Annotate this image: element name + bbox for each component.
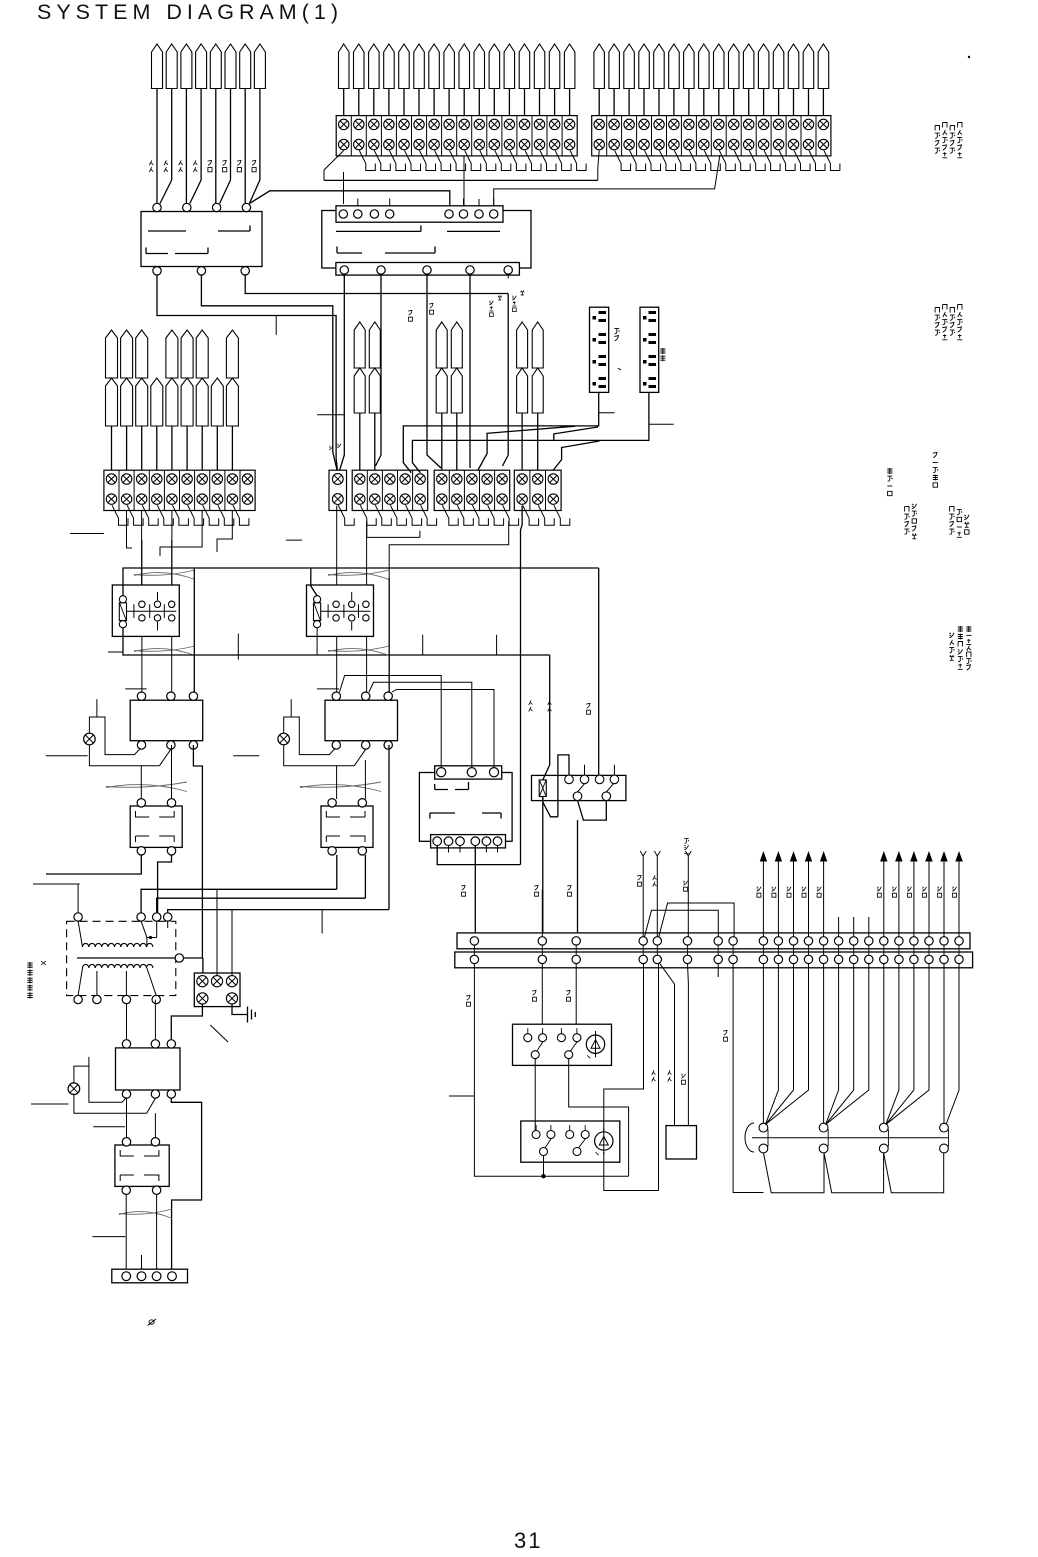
labels konekuta supuringu bbox=[904, 507, 909, 535]
connector CN4 with pilot lamp PL2 bbox=[325, 700, 398, 741]
SB1 bottom wires bbox=[46, 855, 141, 874]
relay K1 loop wire bbox=[193, 568, 195, 692]
tick above CN3 bbox=[125, 688, 147, 690]
labels konekuta/kontakuto group 2 bbox=[935, 308, 940, 336]
CN2 top pins bbox=[339, 210, 347, 218]
wire crossover above K2 bbox=[328, 570, 389, 575]
relay square SQ1 bbox=[666, 1126, 697, 1159]
midori ki labels bbox=[489, 301, 493, 317]
wire CN2-5 down to TB5-5 bbox=[503, 294, 509, 467]
bus bar BB2 bbox=[455, 952, 973, 968]
CN2 internal key dashes bbox=[336, 226, 500, 232]
T1 pin4 wire to CN4-3 bbox=[168, 760, 389, 913]
terminal strip TB5 (5 x 2) bbox=[434, 470, 510, 510]
module M3 fan wires bbox=[886, 964, 899, 1125]
connector CN5 outer housing bbox=[419, 773, 512, 842]
T1 primary winding bbox=[83, 943, 153, 947]
left stub wire bbox=[70, 533, 104, 535]
wire T1 core to terminal bbox=[175, 954, 183, 962]
net return bus lower (y655) bbox=[123, 628, 550, 655]
wires bus to switch unit SW1 bbox=[474, 964, 628, 1177]
wire CN2-1 down to TB3 bbox=[339, 274, 345, 473]
module chain M1-M2 bbox=[764, 1153, 825, 1193]
terminal strip TB1 (16 x 2 screw terminals) bbox=[336, 116, 577, 156]
CN5 key dashes bbox=[435, 782, 469, 790]
staircase wire CN4-2 to CN5-2 bbox=[369, 682, 472, 767]
power stub bbox=[649, 423, 674, 425]
shiro labels group 1 bbox=[757, 887, 761, 897]
wires TB-L2 down to relay K1 bbox=[141, 511, 143, 586]
stub left of PL1 bbox=[46, 755, 88, 757]
module M4 contacts bbox=[940, 1123, 949, 1132]
connector CN1 housing bbox=[141, 212, 262, 267]
connector J7 two-tier pins over TB6 bbox=[517, 322, 544, 470]
connector J4 lower tier pins bbox=[106, 378, 239, 426]
T1 secondary winding bbox=[83, 964, 153, 968]
T1 primary leads bbox=[78, 921, 82, 947]
module M1 contacts bbox=[759, 1123, 768, 1132]
wire crossover above K1 bbox=[134, 570, 195, 575]
stub left of PL3 bbox=[31, 1103, 69, 1105]
kuro labels above bus bbox=[461, 885, 465, 896]
FB1 fuse output to bus bbox=[542, 797, 544, 937]
kuro labels mid bbox=[408, 310, 412, 321]
CN1 bottom pins bbox=[153, 267, 161, 275]
connector J1 pin contacts (8 crimp pins) bbox=[152, 44, 266, 89]
module M1 feed vertical bbox=[762, 964, 764, 1124]
module M4 fan wires bbox=[946, 964, 959, 1125]
terminal box SB1 bbox=[130, 806, 182, 847]
module chain M3-M4 bbox=[884, 1153, 944, 1193]
output terminal strip TB8 bbox=[112, 1269, 188, 1283]
T1 core line bbox=[77, 957, 179, 959]
SB3 feed wires bbox=[126, 1098, 128, 1137]
kuro labels below bus bbox=[466, 995, 470, 1006]
stub left of TB4 drops bbox=[286, 539, 302, 541]
relay K2 loop wire bbox=[388, 578, 390, 644]
TB3 hook bbox=[338, 505, 354, 525]
SB3 output wires bbox=[125, 1194, 127, 1269]
wire TB5-5 to relay K2 loop bbox=[389, 522, 509, 579]
connector J3 pin contacts (16 crimp pins) bbox=[594, 44, 829, 89]
module common bus line bbox=[752, 1137, 948, 1139]
terminal strip TB6 (3 x 2) bbox=[514, 470, 561, 510]
connector J5 two-tier pins over TB4 bbox=[354, 322, 380, 470]
SB2 wires up bbox=[336, 766, 338, 799]
bus jumper J-a bbox=[645, 910, 719, 936]
dai dai shiro labels bbox=[652, 1070, 656, 1081]
SW2 output wires bbox=[543, 1156, 545, 1177]
wire power to TB4 (net C) bbox=[412, 393, 649, 473]
hub unit bbox=[590, 307, 609, 392]
terminal strip TB2 (16 x 2 screw terminals) bbox=[592, 116, 831, 156]
TB7 to CN6 wire bbox=[171, 1004, 202, 1040]
wire crossover below K1 bbox=[134, 646, 195, 651]
isolation transformer T1 (dashed enclosure) bbox=[67, 921, 176, 995]
switch unit SW1 with buzzer BZ1 bbox=[513, 1024, 612, 1065]
svg-text:31: 31 bbox=[514, 1528, 542, 1553]
open arrows (buzzer lines) bbox=[642, 855, 644, 937]
tick wires on return bus bbox=[237, 634, 239, 660]
CN1 internal key dashes bbox=[148, 226, 250, 232]
wire stub under feed bbox=[275, 316, 277, 335]
tap wire net A to TB5-3 bbox=[478, 426, 575, 470]
wire crossover below SB3 bbox=[119, 1209, 172, 1214]
CN5 bottom-1 wire bbox=[437, 846, 520, 865]
CN1 top pins bbox=[153, 203, 161, 211]
relay K2 coil bottom lead bbox=[316, 628, 318, 655]
tick below CN6 bbox=[93, 1126, 125, 1128]
net W3 wire CN2-8 to TB2-9 bbox=[494, 155, 720, 206]
shiro shiro labels bbox=[329, 446, 333, 450]
terminal strip TB3 (single) bbox=[329, 470, 347, 510]
terminal strip TB-L2 (10 x 2 screw terminals) bbox=[104, 470, 255, 510]
wire bus-V to FB1-3 bbox=[598, 568, 600, 775]
connector CN6 with pilot lamp PL3 bbox=[116, 1048, 181, 1090]
wires J2 pins to terminal strip TB1 bbox=[344, 89, 570, 116]
tick below T1 pin4 wire bbox=[321, 910, 323, 934]
wire TB1-9 drop to CN2-6 bbox=[463, 156, 465, 206]
connector CN3 with pilot lamp PL1 bbox=[130, 700, 203, 741]
solid arrows group 2 bbox=[883, 855, 885, 937]
wire T1 feed into bus area bbox=[541, 890, 543, 937]
FB1 fuse element bbox=[539, 780, 546, 797]
wires J4 to terminal strip TB-L2 bbox=[112, 426, 233, 470]
FB1 bottom contacts bbox=[573, 792, 582, 801]
CN2 top pin strip bbox=[336, 206, 503, 222]
wire stub bbox=[717, 964, 719, 977]
connector J4 upper tier pins bbox=[106, 330, 239, 378]
wire crossover above SB1 bbox=[106, 782, 187, 787]
FB1 bridge wire bbox=[543, 755, 569, 817]
module M2 feed vertical bbox=[823, 964, 825, 1124]
TB1 wire hooks bbox=[324, 151, 586, 181]
wire bus to relay K2 output bbox=[388, 644, 390, 692]
CN5 bottom pin strip bbox=[431, 835, 506, 848]
connector CN2 outer housing bbox=[322, 211, 531, 269]
long wire bus to module rail bbox=[733, 964, 763, 1193]
wire color labels dai dai dai dai kuro kuro kuro kuro bbox=[149, 160, 153, 172]
wire bus to lower rail bbox=[658, 964, 660, 1191]
tick above CN2-7 bbox=[478, 199, 480, 206]
T1 label (tanmaki henatsuki) bbox=[27, 962, 32, 999]
T1 pin3 wire to SB2-2 bbox=[157, 855, 366, 913]
SB1 wires up bbox=[140, 766, 142, 799]
terminal box SB2 bbox=[321, 806, 373, 847]
TB4 TB5 TB6 hooks bbox=[360, 505, 570, 525]
BB1-BB2 link ticks bbox=[762, 945, 764, 955]
CN4 pin3 wire down bbox=[388, 745, 390, 760]
hub stub bbox=[599, 412, 615, 414]
CN2 bottom pins bbox=[340, 266, 348, 274]
wire hub to TB4 (net A) bbox=[403, 392, 598, 472]
CN6 feed wires bbox=[126, 1004, 128, 1040]
module chain M2-M3 bbox=[824, 1153, 884, 1193]
FB1 top contacts bbox=[565, 775, 574, 784]
net W2 wire TB1-1 to TB2-1 bbox=[324, 179, 598, 181]
switch unit SW2 with buzzer BZ2 bbox=[521, 1121, 620, 1162]
CN6 pin3 wire down long bbox=[171, 1098, 201, 1269]
guard ring arc bbox=[745, 1123, 754, 1152]
wire crossover below K2 bbox=[328, 646, 389, 651]
relay K2 through wires bbox=[336, 506, 338, 585]
module M1 fan wires bbox=[765, 964, 778, 1125]
dai dai kuro labels above FB outputs bbox=[529, 700, 533, 711]
FB1 coil feed wire bbox=[543, 655, 550, 780]
T1 secondary taps bbox=[78, 968, 82, 995]
wire crossover above SB2 bbox=[300, 782, 381, 787]
T1 secondary terminals bbox=[74, 995, 82, 1003]
TB7 feed wires bbox=[216, 889, 218, 975]
wire right loop bbox=[604, 964, 644, 1131]
CN3 pin3 wire down bbox=[193, 745, 202, 958]
wire CN2-2 down to TB4-2 bbox=[376, 274, 382, 466]
fuse-switch box FB1 bbox=[532, 775, 626, 800]
terminal box SB3 bbox=[115, 1145, 169, 1186]
wires J1 pins to CN1 bbox=[157, 89, 260, 204]
long wire TB6-1 to CN5 bottom bbox=[521, 506, 523, 865]
labels konekuta pureto sheru bbox=[949, 507, 954, 535]
power supply label bbox=[660, 348, 665, 361]
module M3 feed vertical bbox=[883, 964, 885, 1124]
net V+ bus upper (y568) bbox=[123, 568, 599, 596]
T1 top feed stub bbox=[33, 884, 80, 913]
terminal strip TB4 (5 x 2) bbox=[352, 470, 428, 510]
solid arrows group 1 bbox=[762, 855, 764, 937]
CN2 bottom pin strip bbox=[336, 263, 520, 276]
SW1 to SW2 wires bbox=[534, 1059, 536, 1131]
wire CN1-2 to TB3 (shiro) bbox=[201, 275, 337, 470]
power supply unit bbox=[640, 307, 659, 392]
stray diagonal wire bbox=[210, 1025, 228, 1042]
buzzer label bbox=[684, 839, 689, 854]
wire bus to SQ1 bbox=[660, 964, 675, 1126]
stray dot bbox=[968, 56, 970, 58]
wire CN1-1 to TB3 (shiro) bbox=[157, 275, 338, 473]
CN5 bottom wire to bus bbox=[474, 846, 476, 937]
tick stubs between arrow groups bbox=[838, 917, 840, 937]
phi mark bbox=[148, 1319, 157, 1326]
relay K2 with coil and contacts bbox=[307, 585, 374, 636]
module M4 feed vertical bbox=[943, 964, 945, 1124]
bus jumper J-b bbox=[659, 903, 734, 937]
FB1 bottom link bbox=[578, 801, 607, 821]
wire TB4-1 jog link bbox=[367, 522, 420, 538]
FB1 switch blades bbox=[578, 784, 585, 792]
label cable-side bbox=[933, 452, 938, 487]
tick across TB3 feeds bbox=[317, 414, 344, 416]
staircase wire CN4-3 to CN5-3 bbox=[392, 690, 494, 768]
hub label bbox=[614, 329, 619, 341]
wire CN2-4 down to TB5-3 bbox=[469, 274, 471, 468]
wire CN1-3 to TB5 cell5 bbox=[245, 275, 508, 294]
BB2 terminals bbox=[470, 955, 478, 963]
tick stub bbox=[92, 1236, 125, 1238]
wire TB1-1 drop to CN2-1 bbox=[343, 172, 345, 204]
TB2 wire hooks bbox=[598, 151, 840, 181]
connector J6 two-tier pins over TB5 bbox=[436, 322, 462, 470]
labels konekuta/kontakuto group 1 bbox=[935, 126, 940, 154]
module M2 fan wires bbox=[826, 964, 839, 1125]
kuro label right bbox=[723, 1030, 727, 1041]
stub left of PL2 bbox=[233, 755, 259, 757]
relay K2 coil tap to bus bbox=[311, 568, 317, 596]
kuro dai shiro labels at arrows bbox=[637, 875, 641, 886]
wires J3 pins to terminal strip TB2 bbox=[599, 89, 823, 116]
module M3 contacts bbox=[879, 1123, 888, 1132]
CN5 top pin strip bbox=[435, 766, 502, 779]
shiro labels group 2 bbox=[877, 887, 881, 897]
relay K1 through wires bbox=[141, 540, 143, 585]
label panel-side bbox=[887, 468, 892, 496]
T1 primary terminals bbox=[74, 913, 82, 921]
FB1 output to bus bbox=[577, 820, 579, 936]
BB1 terminals bbox=[470, 937, 478, 945]
wire CN1 pin4 to CN2-5 (net W1) bbox=[250, 191, 450, 210]
ground symbol E1 bbox=[232, 1004, 248, 1015]
tap wire net C to TB6-3 bbox=[553, 441, 599, 470]
tap wire net A second bbox=[554, 427, 598, 440]
terminal block TB7 bbox=[194, 973, 240, 1007]
relay K1 with coil and contacts bbox=[112, 585, 179, 636]
T1 pin2 wire to SB2-1 bbox=[141, 855, 337, 913]
connector J2 pin contacts (16 crimp pins) bbox=[339, 44, 575, 89]
svg-text:SYSTEM DIAGRAM(1): SYSTEM DIAGRAM(1) bbox=[37, 0, 343, 24]
BZ2 wire down bbox=[604, 1152, 659, 1191]
wire CN2-3 down to TB5-1 bbox=[427, 274, 441, 468]
module M2 contacts bbox=[819, 1123, 828, 1132]
TB-L2 wire hooks bbox=[112, 505, 249, 525]
bus bar BB1 bbox=[457, 933, 970, 949]
labels switch/contact-unit/guard-ring group bbox=[949, 633, 954, 661]
staircase wire CN4-1 to CN5-1 bbox=[340, 676, 442, 768]
